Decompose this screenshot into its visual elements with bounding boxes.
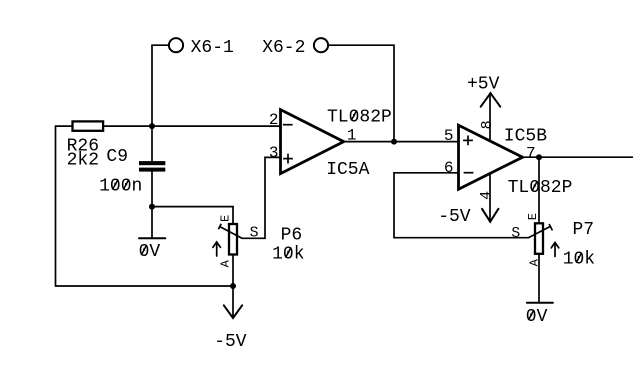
svg-text:C9: C9	[106, 147, 128, 167]
svg-text:S: S	[511, 226, 520, 242]
junction IC5B output node	[536, 154, 542, 160]
potentiometer P7	[535, 223, 543, 254]
label TL082P IC5B	[508, 178, 573, 198]
terminal X6-1	[169, 38, 183, 52]
pin label E P7	[526, 213, 540, 220]
ground 0V left	[139, 237, 165, 239]
P7 wiper	[528, 224, 552, 238]
svg-text:IC5A: IC5A	[326, 160, 369, 180]
wire P6 wiper to IC5A pin3	[242, 157, 281, 238]
value 100n	[99, 176, 142, 196]
pin number 6	[444, 159, 454, 177]
svg-text:0V: 0V	[526, 307, 548, 327]
label P7	[573, 220, 595, 240]
pin number 1	[347, 127, 357, 145]
pin label S P6	[250, 226, 259, 242]
junction P6 bottom	[230, 283, 236, 289]
svg-text:5: 5	[444, 127, 454, 145]
svg-text:X6-1: X6-1	[191, 38, 234, 58]
svg-text:-5V: -5V	[438, 207, 471, 227]
svg-text:3: 3	[269, 144, 279, 162]
svg-text:IC5B: IC5B	[504, 126, 547, 146]
label 0V right	[526, 307, 548, 327]
wire left rail down	[55, 126, 57, 286]
pin 8 wire	[489, 93, 491, 140]
svg-text:7: 7	[526, 145, 536, 163]
pin label S P7	[511, 226, 520, 242]
wire R26 left lead	[56, 125, 73, 127]
value 10k P7	[563, 250, 595, 270]
svg-text:6: 6	[444, 159, 454, 177]
wire R26 right to IC5A pin2	[103, 125, 280, 127]
value 2k2	[67, 151, 99, 171]
pin label A P7	[527, 258, 541, 266]
label +5V	[467, 75, 500, 95]
pin number 3	[269, 144, 279, 162]
value 10k P6	[272, 244, 304, 264]
wire IC5B output to edge	[523, 156, 633, 158]
supply +5V arrow	[481, 93, 501, 107]
wire C9 bottom	[151, 172, 153, 237]
label C9	[106, 147, 128, 167]
svg-text:E: E	[219, 215, 233, 222]
svg-text:4: 4	[478, 191, 495, 200]
wire X6-1 lead	[152, 44, 169, 46]
P6 wiper	[218, 224, 242, 239]
junction IC5A output node	[391, 139, 397, 145]
IC5A minus sign pin2	[283, 124, 293, 126]
label R26	[67, 137, 99, 157]
svg-text:2k2: 2k2	[67, 151, 99, 171]
label X6-2	[262, 38, 305, 58]
label IC5A	[326, 160, 369, 180]
svg-text:X6-2: X6-2	[262, 38, 305, 58]
wire X6-1 down to node A	[151, 45, 153, 161]
svg-text:TL082P: TL082P	[508, 178, 573, 198]
svg-text:TL082P: TL082P	[327, 107, 392, 127]
label TL082P IC5A	[327, 107, 392, 127]
IC5A plus sign pin3	[283, 154, 293, 164]
label -5V bottom	[214, 332, 247, 352]
wire P7 bottom	[538, 254, 540, 303]
wire X6-2 to IC5A output node	[328, 45, 394, 141]
op-amp IC5A	[281, 110, 344, 174]
P7 adjust arrow	[551, 243, 559, 257]
pin number 4 rotated	[478, 191, 495, 200]
junction C9-ground node	[149, 204, 155, 210]
IC5B minus sign pin6	[464, 172, 474, 174]
svg-text:2: 2	[269, 111, 279, 129]
terminal X6-2	[314, 38, 328, 52]
capacitor C9	[139, 161, 165, 172]
supply -5V arrow IC5B	[482, 209, 498, 222]
svg-text:P7: P7	[573, 220, 595, 240]
label -5V IC5B	[438, 207, 471, 227]
wire bottom rail	[56, 285, 234, 287]
pin 4 wire	[489, 174, 491, 222]
IC5B plus sign pin5	[463, 136, 473, 146]
wire IC5A output	[344, 141, 459, 143]
svg-text:-5V: -5V	[214, 332, 247, 352]
svg-text:E: E	[526, 213, 540, 220]
wire node to P6 top	[152, 207, 233, 224]
supply -5V bottom arrow	[224, 286, 242, 318]
svg-text:100n: 100n	[99, 176, 142, 196]
svg-text:8: 8	[479, 120, 496, 129]
pin number 5	[444, 127, 454, 145]
wire output down to P7	[538, 157, 540, 223]
junction node A	[149, 123, 155, 129]
wire IC5B feedback pin6	[394, 173, 528, 238]
svg-text:10k: 10k	[272, 244, 304, 264]
svg-text:0V: 0V	[139, 242, 161, 262]
pin label E P6	[219, 215, 233, 222]
ground 0V right	[527, 302, 553, 304]
pin label A P6	[219, 259, 233, 267]
label P6	[281, 226, 303, 246]
P6 adjust arrow	[213, 242, 221, 256]
potentiometer P6	[229, 224, 237, 255]
pin number 7	[526, 145, 536, 163]
label IC5B	[504, 126, 547, 146]
pin number 2	[269, 111, 279, 129]
svg-text:A: A	[219, 259, 233, 267]
svg-text:10k: 10k	[563, 250, 595, 270]
svg-text:P6: P6	[281, 226, 303, 246]
wire P6 bottom	[232, 255, 234, 287]
pin number 8 rotated	[479, 120, 496, 129]
label 0V left	[139, 242, 161, 262]
resistor R26	[73, 121, 104, 130]
op-amp IC5B	[459, 125, 523, 189]
svg-text:+5V: +5V	[467, 75, 500, 95]
label X6-1	[191, 38, 234, 58]
